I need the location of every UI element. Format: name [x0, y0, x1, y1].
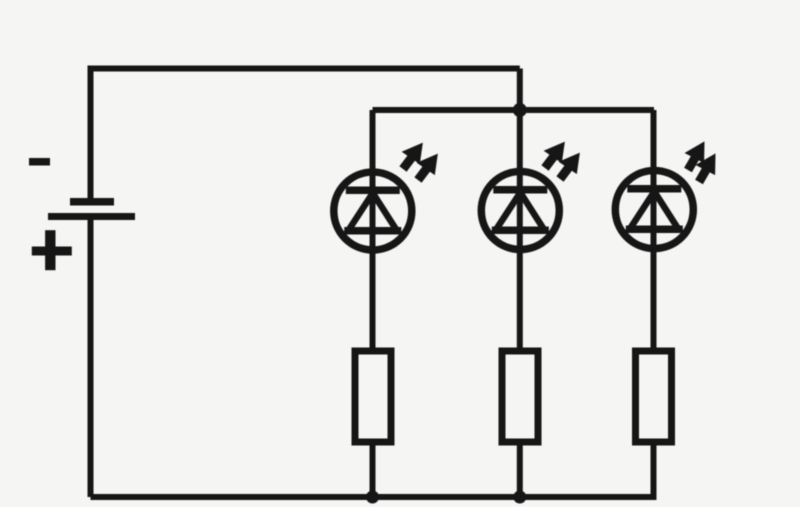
battery BT1 negative plate (short) — [70, 198, 114, 206]
wire: resistor R1 to bottom bus — [370, 442, 376, 497]
LED D2 emission arrows — [536, 135, 588, 186]
wire: battery negative terminal up and across the top to branch 2 — [91, 69, 520, 203]
battery BT1 positive plate (long) — [48, 213, 135, 220]
resistor R3 — [636, 351, 672, 442]
resistor R1 — [355, 351, 391, 442]
LED D3 emission arrows — [678, 136, 725, 188]
wire: resistor R2 to bottom bus — [517, 442, 523, 497]
node: bottom junction branch 1 — [366, 491, 379, 504]
wire: bottom bus from battery to branch 3 — [91, 445, 654, 497]
label: plus sign at battery positive terminal — [32, 230, 72, 270]
resistor R2 — [502, 351, 538, 442]
wire: branch 3 vertical from bus to resistor R3 — [651, 110, 657, 348]
LED D1 — [334, 172, 412, 250]
wire: battery positive terminal down to bottom bus — [88, 219, 94, 497]
node: top junction — [513, 103, 527, 117]
LED D2 — [481, 172, 559, 250]
wire: branch 2 vertical drop from top wire through junction to resistor R2 — [517, 69, 523, 349]
label: minus sign at battery negative terminal — [29, 158, 50, 166]
LED D3 — [615, 171, 693, 249]
node: bottom junction branch 2 — [513, 491, 526, 504]
LED D1 emission arrows — [394, 136, 446, 187]
wire: branch 1 vertical from bus to resistor R1 — [370, 110, 376, 348]
wire: LED bus horizontal — [373, 107, 655, 113]
